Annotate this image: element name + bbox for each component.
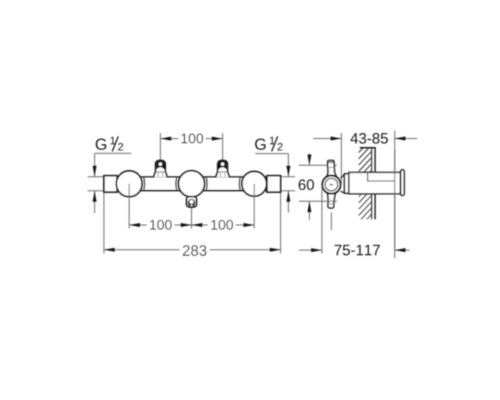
wall top cap line — [360, 147, 376, 149]
wall surface line inner lower — [371, 194, 373, 219]
G 1/2 leader underline left — [95, 152, 132, 154]
arrowhead top 100 right — [212, 137, 223, 141]
arrowhead bottom 100 far left — [129, 223, 140, 227]
right thread extension line upper — [281, 176, 295, 178]
white gap for top 100 text — [179, 133, 206, 145]
arrowhead G1/2 right down — [286, 166, 290, 177]
side view upper port stub — [326, 160, 336, 176]
dimension text 43-85 — [350, 133, 387, 144]
G 1/2 right dimension line lower — [287, 191, 289, 213]
extension line 43-85 / 75-117 right (pipe end) — [394, 131, 396, 258]
arrowhead 75-117 right — [395, 248, 406, 252]
connector collar — [344, 174, 349, 193]
right G1/2 end cap — [267, 176, 281, 192]
G 1/2 right dimension line upper — [287, 154, 289, 177]
arrowhead G1/2 left down — [93, 166, 97, 177]
dimension line bottom 100 + 100 — [129, 224, 254, 226]
lower outlet port under middle ball — [187, 197, 197, 207]
extension line 60 upper — [299, 164, 337, 166]
left ball joint — [116, 171, 142, 197]
extension line 43-85 left (min wall face) — [340, 133, 342, 183]
socket ring left of right ball — [238, 177, 241, 190]
dimension text 100 (bottom right) — [211, 220, 233, 230]
extension line 283 right — [280, 192, 282, 253]
socket ring right of left ball — [143, 177, 146, 190]
dimension tail 60 lower — [308, 201, 310, 220]
dimension tail 43-85 right — [395, 138, 418, 140]
socket ring right of middle ball — [205, 177, 208, 190]
wedge line upper (ball to body) — [341, 175, 345, 179]
extension line 283 left — [103, 192, 105, 253]
side view ball joint inner circle — [325, 178, 338, 191]
wall surface line outer lower — [374, 194, 376, 219]
extension line 60 lower — [299, 200, 337, 202]
middle ball joint — [178, 171, 204, 197]
left thread extension line lower — [88, 190, 104, 192]
extension line through body (redraw over body) — [394, 150, 396, 250]
arrowhead G1/2 right up — [286, 191, 290, 202]
side view ball joint outer circle — [322, 176, 340, 194]
wall surface line inner upper — [371, 148, 373, 172]
wall hatching lower section — [359, 126, 372, 235]
white gap for bottom left 100 text — [147, 219, 175, 231]
dimension text 100 (top) — [181, 134, 203, 144]
upper outlet port 1 (between left and middle ball) — [154, 160, 168, 177]
arrowhead 283 right — [270, 248, 281, 252]
arrowhead bottom 100 center-left — [181, 223, 192, 227]
wedge line lower (ball to body) — [341, 191, 345, 193]
manifold bar bottom edge — [117, 190, 267, 192]
right thread extension line lower — [281, 190, 295, 192]
dimension tail 75-117 left — [299, 249, 322, 251]
arrowhead top 100 left — [160, 137, 171, 141]
dimension tail 60 upper — [308, 153, 310, 165]
center line of middle ball joint — [191, 207, 193, 228]
G 1/2 leader underline right — [255, 153, 288, 155]
dimension tail 75-117 right — [395, 249, 410, 251]
thread label G 1/2 left — [96, 136, 123, 151]
inner sleeve step line — [368, 173, 395, 181]
dimension text 60 — [299, 179, 314, 190]
side view lower port stub — [327, 193, 335, 208]
right ball joint — [242, 171, 267, 196]
arrowhead 43-85 left — [331, 137, 342, 141]
extension line 75-117 left — [321, 186, 323, 254]
arrowhead 43-85 right — [395, 137, 406, 141]
arrowhead bottom 100 far right — [243, 223, 254, 227]
white gap for 283 text — [180, 244, 210, 256]
dimension text 283 — [183, 245, 207, 256]
side view center line below stub — [330, 213, 332, 231]
center line of right ball joint — [253, 184, 255, 229]
white gap for bottom right 100 text — [208, 219, 236, 231]
extension line for top 100 dimension (left, at upper port 1) — [159, 133, 161, 160]
center line of left ball joint — [128, 184, 130, 229]
socket ring left of middle ball — [175, 177, 178, 190]
left G1/2 end cap — [104, 176, 117, 192]
left thread extension line upper — [88, 176, 104, 178]
upper outlet port 2 (between middle and right ball) — [216, 160, 230, 177]
wall surface line outer upper — [374, 148, 376, 172]
arrowhead 60 lower — [307, 201, 311, 212]
dimension line 283 — [104, 249, 281, 251]
dimension tail 43-85 left — [313, 138, 341, 140]
thread label G 1/2 right — [255, 136, 282, 151]
G 1/2 left dimension line lower — [94, 191, 96, 213]
outlet flange — [401, 170, 405, 196]
G 1/2 left dimension line upper — [94, 153, 96, 176]
arrowhead bottom 100 center-right — [192, 223, 203, 227]
dimension line top 100 — [160, 138, 222, 140]
side view ball joint center mark — [330, 184, 334, 186]
dimension text 100 (bottom left) — [150, 220, 172, 230]
arrowhead G1/2 left up — [93, 191, 97, 202]
arrowhead 60 upper — [307, 155, 311, 166]
valve body housing — [349, 172, 401, 193]
extension line for top 100 dimension (right, at upper port 2) — [222, 133, 224, 160]
arrowhead 75-117 left — [311, 248, 322, 252]
dimension text 75-117 — [335, 245, 380, 255]
manifold bar top edge — [117, 176, 267, 178]
arrowhead 283 left — [104, 248, 115, 252]
